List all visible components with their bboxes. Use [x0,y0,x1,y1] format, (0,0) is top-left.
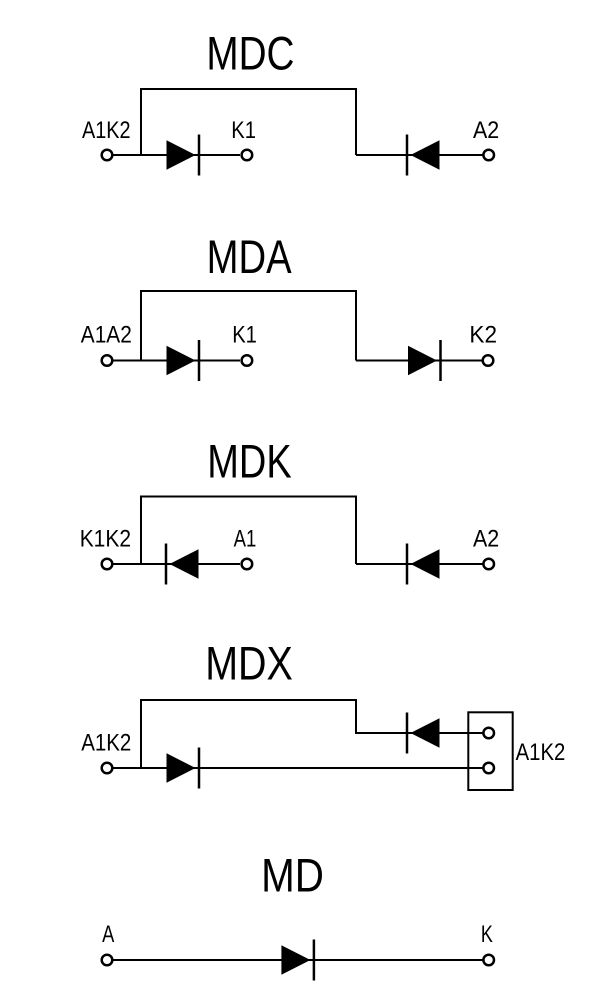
terminal K (MD) [483,955,494,966]
diode D6 (MDK right, anode right) [407,544,440,585]
svg-text:A1K2: A1K2 [81,729,131,756]
terminal lower (MDX box) [483,763,494,774]
diode D8 (MDX upper, anode right) [407,713,440,754]
diode D2 (MDC right, anode right) [407,135,440,176]
diode D1 (MDC left, anode left) [167,135,200,176]
wire MDK left main [113,563,240,565]
module body box (MDX) [468,712,512,790]
wire MDC left main [113,154,240,156]
wire MDC right main [356,154,483,156]
terminal K1 (MDA) [242,355,253,366]
wire MDA left main [113,360,240,362]
svg-text:A2: A2 [473,525,499,552]
svg-text:MDK: MDK [207,436,292,489]
terminal A2 (MDC) [483,150,494,161]
svg-text:MD: MD [261,850,324,903]
terminal K1K2 (MDK) [102,559,113,570]
svg-text:MDX: MDX [205,638,293,691]
svg-text:K2: K2 [469,321,497,348]
svg-text:K: K [481,921,493,948]
terminal A1K2 (MDC) [102,150,113,161]
svg-text:K1: K1 [231,117,256,144]
terminal K2 (MDA) [483,355,494,366]
terminal A1A2 (MDA) [102,355,113,366]
svg-text:K1K2: K1K2 [80,525,131,552]
wire MDC top bus [141,89,356,155]
terminal upper (MDX box) [483,728,494,739]
svg-text:A1K2: A1K2 [516,739,566,766]
wire MD main [113,959,483,961]
svg-text:MDA: MDA [207,231,292,284]
terminal A1 (MDK) [242,559,253,570]
svg-text:A1: A1 [234,525,257,552]
svg-text:A: A [102,921,114,948]
terminal A (MD) [102,955,113,966]
wire MDK right main [356,563,483,565]
diode D4 (MDA right, anode left) [408,340,441,381]
terminal K1 (MDC) [242,150,253,161]
wire MDX top bus [141,700,483,768]
svg-text:A1K2: A1K2 [82,117,131,144]
wire MDK top bus [141,497,356,565]
svg-text:A1A2: A1A2 [81,321,132,348]
diode D3 (MDA left, anode left) [167,340,200,381]
svg-text:MDC: MDC [206,28,294,81]
svg-text:A2: A2 [473,117,499,144]
wire MDA top bus [141,291,356,361]
wire MDA right main [356,360,482,362]
svg-text:K1: K1 [232,321,257,348]
diode D7 (MDX lower, anode left) [167,748,200,789]
diode D9 (MD, anode left) [281,940,314,981]
terminal A2 (MDK) [483,559,494,570]
terminal A1K2 (MDX left) [102,763,113,774]
wire MDX main [113,767,483,769]
diode D5 (MDK left, anode right) [166,544,199,585]
